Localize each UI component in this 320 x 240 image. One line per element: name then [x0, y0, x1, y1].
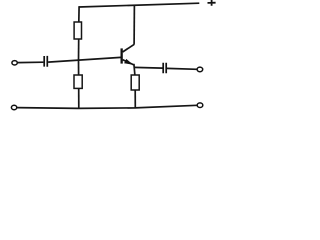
terminal: input (top left)	[12, 61, 17, 65]
terminal: common right (bottom)	[197, 103, 203, 108]
resistor R2 (base bias lower)	[74, 75, 82, 88]
wire: R1 to base node	[78, 39, 80, 61]
resistor R3 (emitter)	[131, 75, 139, 90]
wire: R3 to ground rail	[134, 90, 136, 108]
resistor R1 (base bias upper)	[74, 22, 81, 39]
wire: emitter down to R3	[134, 64, 135, 76]
wire: C2 to output terminal	[167, 67, 197, 70]
terminal: output (right)	[197, 67, 203, 72]
wire: collector to top rail	[133, 5, 135, 45]
wire: base node down to R2	[78, 60, 80, 75]
wire: input terminal to C1	[17, 61, 43, 63]
terminal: common left (bottom)	[11, 105, 16, 109]
transistor Q1 (NPN)	[121, 44, 135, 65]
wire: R2 to ground rail	[78, 88, 80, 108]
wire: top rail down to R1	[78, 6, 80, 22]
wire: +V supply top rail	[79, 3, 199, 7]
wire: bottom common rail	[17, 105, 197, 108]
capacitor C2 (output coupling)	[163, 63, 166, 73]
capacitor C1 (input coupling)	[44, 56, 47, 67]
+ supply polarity label	[208, 0, 216, 6]
wire: C1 to transistor base (through base node)	[48, 57, 121, 62]
node: emitter junction / wire to C2	[134, 66, 163, 69]
